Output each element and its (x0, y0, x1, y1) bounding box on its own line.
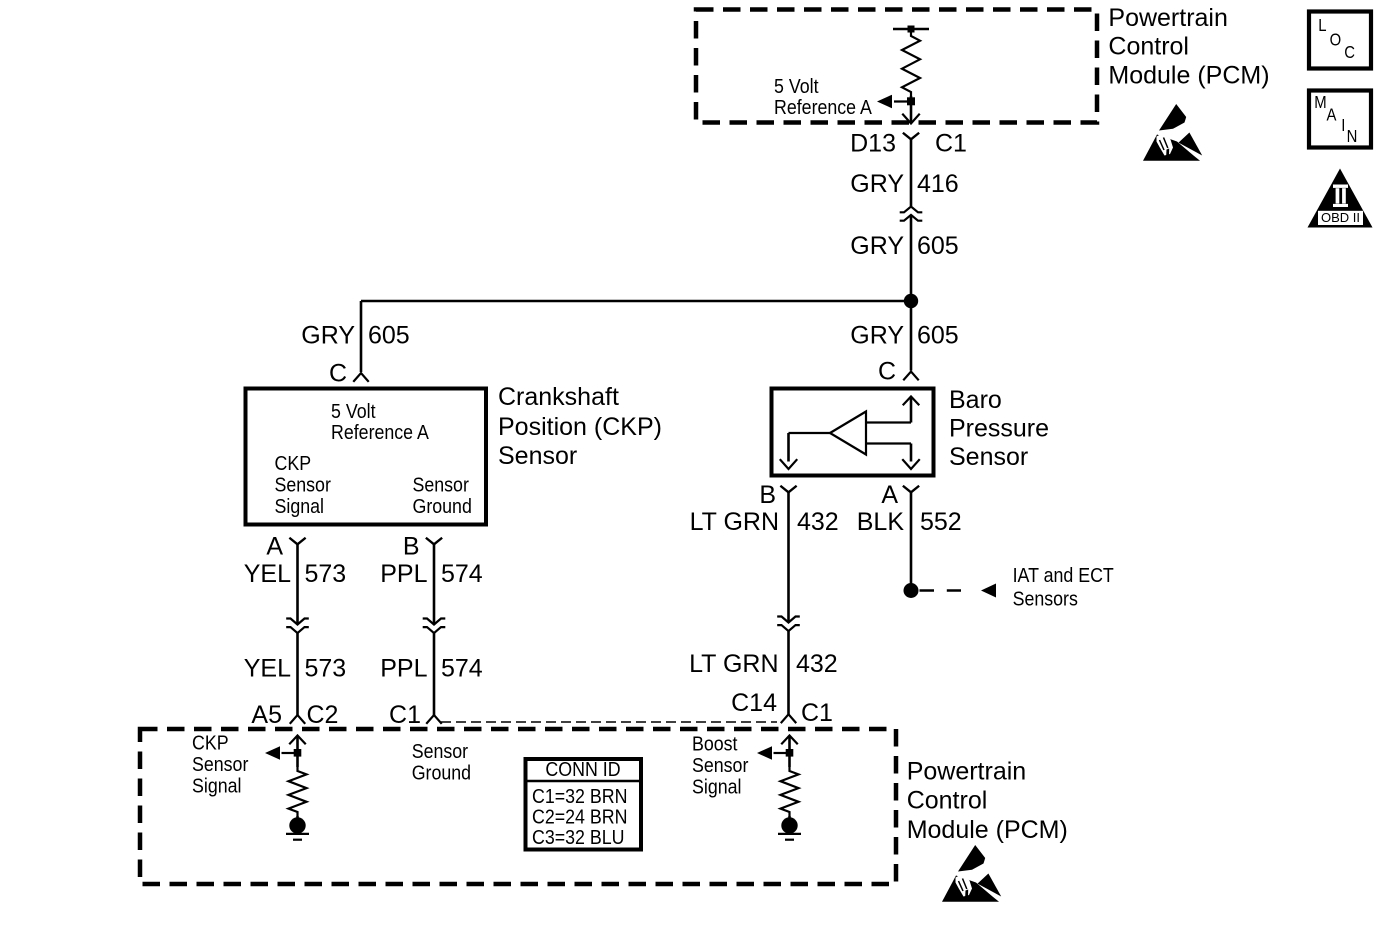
svg-text:574: 574 (441, 560, 483, 588)
svg-text:N: N (1347, 127, 1358, 146)
svg-text:A: A (881, 481, 898, 509)
svg-text:YEL: YEL (244, 655, 291, 683)
svg-text:605: 605 (917, 322, 959, 350)
svg-text:Ground: Ground (413, 496, 472, 518)
svg-text:YEL: YEL (244, 560, 291, 588)
svg-text:C2=24 BRN: C2=24 BRN (532, 807, 627, 829)
svg-text:C: C (1344, 43, 1355, 62)
svg-text:Ground: Ground (412, 763, 471, 785)
svg-text:Sensor: Sensor (412, 741, 468, 763)
svg-text:B: B (759, 481, 776, 509)
svg-text:C1=32 BRN: C1=32 BRN (532, 786, 627, 808)
svg-text:A: A (266, 533, 283, 561)
svg-text:BLK: BLK (857, 508, 905, 536)
svg-text:605: 605 (368, 322, 410, 350)
svg-text:C: C (329, 360, 347, 388)
svg-text:C3=32 BLU: C3=32 BLU (532, 827, 624, 849)
svg-text:LT GRN: LT GRN (690, 508, 779, 536)
svg-text:Sensor: Sensor (275, 474, 331, 496)
svg-text:C1: C1 (801, 699, 833, 727)
svg-text:432: 432 (796, 650, 838, 678)
svg-text:GRY: GRY (850, 322, 904, 350)
svg-text:GRY: GRY (850, 232, 904, 260)
svg-text:Module (PCM): Module (PCM) (907, 816, 1068, 844)
svg-text:Boost: Boost (692, 734, 738, 756)
svg-text:574: 574 (441, 655, 483, 683)
svg-text:416: 416 (917, 170, 959, 198)
svg-text:C1: C1 (935, 130, 967, 158)
svg-text:573: 573 (305, 655, 347, 683)
svg-text:Signal: Signal (275, 496, 324, 518)
svg-text:5 Volt: 5 Volt (774, 76, 819, 98)
svg-text:Position (CKP): Position (CKP) (498, 413, 662, 441)
svg-text:Pressure: Pressure (949, 415, 1049, 443)
svg-text:552: 552 (920, 508, 962, 536)
svg-text:PPL: PPL (380, 560, 427, 588)
svg-text:5 Volt: 5 Volt (331, 401, 376, 423)
svg-text:Reference A: Reference A (331, 422, 429, 444)
svg-text:LT GRN: LT GRN (689, 650, 778, 678)
svg-text:CKP: CKP (275, 453, 312, 475)
svg-text:O: O (1330, 30, 1342, 49)
svg-text:Sensor: Sensor (192, 754, 248, 776)
svg-text:IAT and ECT: IAT and ECT (1013, 565, 1115, 587)
svg-text:L: L (1318, 16, 1326, 35)
svg-text:Sensor: Sensor (949, 443, 1028, 471)
svg-text:M: M (1314, 93, 1326, 112)
svg-text:Baro: Baro (949, 386, 1002, 414)
svg-text:Control: Control (907, 786, 988, 814)
svg-text:Sensors: Sensors (1013, 588, 1078, 610)
svg-text:Sensor: Sensor (498, 442, 577, 470)
svg-text:Sensor: Sensor (413, 474, 469, 496)
svg-text:CONN ID: CONN ID (545, 759, 620, 781)
svg-text:432: 432 (797, 508, 839, 536)
svg-text:C1: C1 (389, 701, 421, 729)
svg-text:C: C (878, 358, 896, 386)
svg-text:Signal: Signal (192, 775, 241, 797)
svg-text:A5: A5 (251, 701, 282, 729)
svg-text:Reference A: Reference A (774, 97, 872, 119)
svg-text:I: I (1341, 116, 1345, 135)
svg-text:OBD II: OBD II (1321, 210, 1360, 225)
svg-text:Crankshaft: Crankshaft (498, 383, 619, 411)
svg-text:GRY: GRY (301, 322, 355, 350)
svg-text:Module (PCM): Module (PCM) (1108, 61, 1269, 89)
svg-text:D13: D13 (850, 130, 896, 158)
svg-text:CKP: CKP (192, 732, 229, 754)
svg-text:C14: C14 (731, 689, 777, 717)
svg-text:C2: C2 (307, 701, 339, 729)
svg-text:A: A (1327, 105, 1337, 124)
svg-text:Control: Control (1108, 32, 1189, 60)
svg-text:B: B (403, 533, 420, 561)
svg-text:Signal: Signal (692, 777, 741, 799)
svg-text:Sensor: Sensor (692, 755, 748, 777)
svg-text:PPL: PPL (380, 655, 427, 683)
svg-text:Powertrain: Powertrain (1108, 4, 1228, 32)
svg-text:GRY: GRY (850, 170, 904, 198)
svg-text:605: 605 (917, 232, 959, 260)
svg-text:573: 573 (305, 560, 347, 588)
svg-text:Powertrain: Powertrain (907, 758, 1026, 786)
